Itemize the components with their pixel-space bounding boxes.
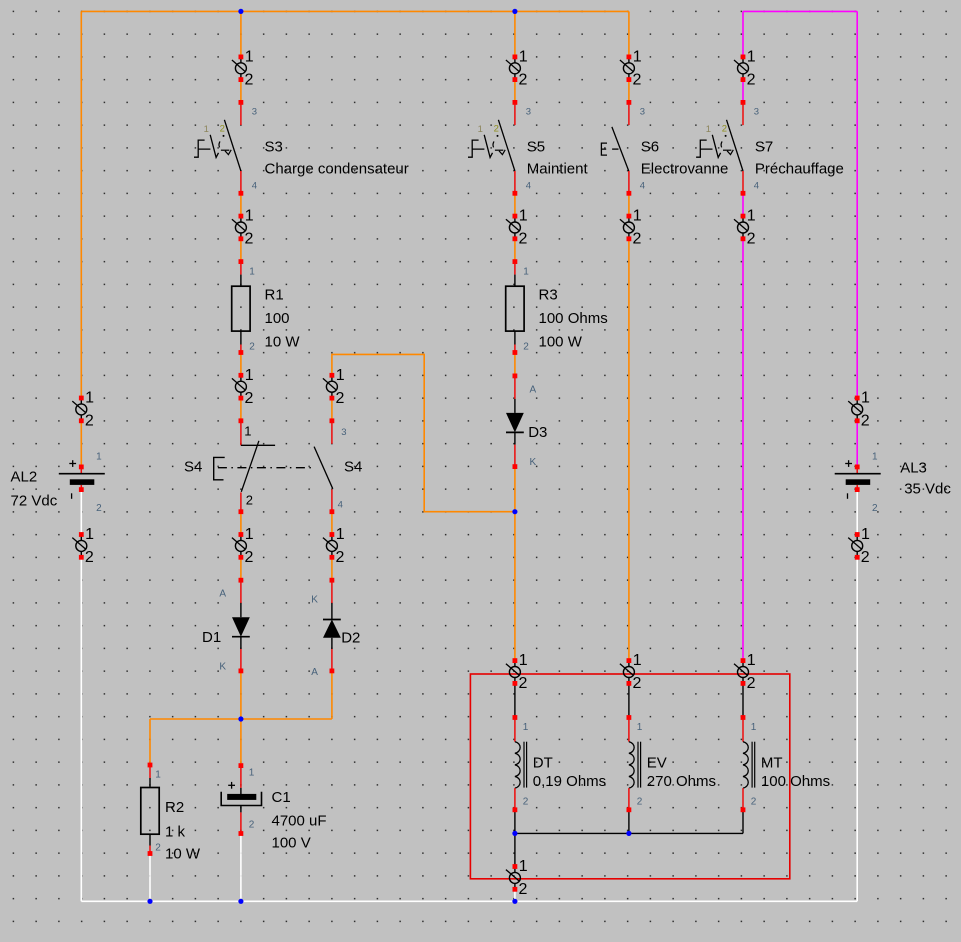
node node EV common [626,831,631,836]
svg-text:S5: S5 [527,138,545,155]
svg-text:A: A [530,384,537,395]
wire white bottom bus [81,900,857,902]
svg-text:1: 1 [96,452,102,463]
svg-text:3: 3 [341,427,346,438]
svg-text:2: 2 [523,796,529,807]
svg-text:2: 2 [245,549,254,566]
svg-text:2: 2 [722,123,727,134]
svg-text:K: K [219,661,226,672]
wire S7 pin4 to TP [742,195,744,217]
test point above D1 [232,526,254,566]
svg-text:4: 4 [252,180,257,191]
svg-text:1: 1 [245,49,254,66]
wire C1 bottom [240,834,242,902]
svg-text:100 Ohms: 100 Ohms [539,310,608,327]
node node R2/bus [147,899,152,904]
svg-text:72 Vdc: 72 Vdc [11,493,58,510]
svg-text:100 W: 100 W [539,334,583,351]
test point EV [620,652,642,692]
svg-text:S7: S7 [755,138,773,155]
svg-text:4700 uF: 4700 uF [272,812,327,829]
svg-text:270 Ohms: 270 Ohms [647,773,716,790]
node node S5/top bus [512,9,517,14]
wire AL3 column top [856,11,858,398]
svg-text:2: 2 [246,493,253,508]
wire R2 bottom [149,854,151,902]
svg-text:R3: R3 [539,287,558,304]
svg-text:2: 2 [220,123,225,134]
battery AL3 (35 Vdc) [835,452,952,515]
svg-text:10 W: 10 W [165,846,201,863]
svg-text:R2: R2 [165,799,184,816]
svg-text:AL3: AL3 [900,459,927,476]
wire S6 column drop [628,11,630,57]
switch S5 (Maintient) [468,100,588,196]
wire S4 branch to node F [332,354,515,511]
svg-text:2: 2 [155,843,161,854]
wire S4 pin2 to TP [240,512,242,535]
svg-text:1: 1 [747,49,756,66]
test point AL3 minus [848,526,870,566]
svg-text:K: K [311,595,318,606]
svg-text:D2: D2 [341,629,360,646]
svg-text:1: 1 [519,652,528,669]
svg-text:2: 2 [249,342,255,353]
svg-text:2: 2 [637,796,643,807]
wire horizontal R2/C1/D2 [150,718,332,720]
wire S5 pin4 to TP [514,195,516,217]
wire node to C1 [240,719,242,765]
test point common bottom [506,858,528,898]
wire S6 TP to pin3 [628,80,630,101]
diode D1 [219,578,249,674]
svg-text:2: 2 [747,231,756,248]
svg-text:1: 1 [155,770,161,781]
enclosure box (glow plug unit) [470,674,789,879]
wire D2 cathode riser [331,671,333,719]
svg-text:0,19 Ohms: 0,19 Ohms [533,773,606,790]
svg-text:2: 2 [872,503,878,514]
svg-text:1: 1 [519,858,528,875]
capacitor C1 (4700 uF 100 V) [221,763,326,852]
svg-text:S4: S4 [184,459,202,476]
test point above D2 [323,526,345,566]
svg-text:2: 2 [245,231,254,248]
svg-text:MT: MT [761,755,783,772]
switch S4 left pole (NC) [184,418,275,514]
wire TP to S4 pin1 [240,398,242,421]
svg-text:C1: C1 [272,789,291,806]
svg-text:1: 1 [244,424,251,439]
wire R1 to TP [240,353,242,376]
inductor DT (0,19 Ohms) [513,715,607,812]
svg-text:1: 1 [249,768,255,779]
svg-text:100: 100 [265,310,290,327]
wire S6 pin4 to TP [628,195,630,217]
wire DT bottom TP to bus [514,889,516,901]
wire node to DT test point [514,512,516,661]
test point AL2 minus [72,526,94,566]
svg-text:2: 2 [494,123,499,134]
test point AL2 plus [72,390,94,430]
test point S5 bottom [506,208,528,248]
svg-text:1: 1 [336,526,345,543]
svg-text:4: 4 [754,180,759,191]
wire S4 right pin4 to TP [331,512,333,535]
node node C1/bus [238,899,243,904]
node node DT common [512,831,517,836]
svg-text:2: 2 [96,503,102,514]
svg-text:D1: D1 [202,629,221,646]
wire S7 TP to pin3 [742,80,744,101]
svg-text:2: 2 [85,413,94,430]
wire drop to R2 [149,719,151,765]
svg-text:35 Vdc: 35 Vdc [904,481,951,498]
switch S4 right pole (NO) [314,418,362,514]
test point S5 top [506,49,528,89]
wire TP to R3 [514,239,516,262]
svg-text:1: 1 [633,208,642,225]
svg-text:1: 1 [633,49,642,66]
switch S3 (Charge condensateur) [194,100,409,196]
svg-text:4: 4 [338,499,343,510]
svg-text:1: 1 [633,652,642,669]
diode D3 [506,374,547,470]
resistor R3 [506,259,608,355]
svg-text:2: 2 [633,675,642,692]
wire DT TP to coil [514,683,516,717]
svg-text:100 V: 100 V [272,835,311,852]
svg-text:2: 2 [519,881,528,898]
svg-text:Préchauffage: Préchauffage [755,161,844,178]
svg-text:2: 2 [245,72,254,89]
svg-text:2: 2 [747,675,756,692]
svg-text:1: 1 [861,390,870,407]
test point below R1 [232,367,254,407]
svg-text:1: 1 [336,367,345,384]
svg-text:1 k: 1 k [165,824,186,841]
svg-text:S4: S4 [344,459,362,476]
wire TP to S4 right pin3 [331,398,333,421]
svg-text:2: 2 [519,675,528,692]
svg-text:A: A [311,667,318,678]
svg-text:1: 1 [747,208,756,225]
svg-text:D3: D3 [528,424,547,441]
svg-text:1: 1 [85,390,94,407]
test point S3 bottom [232,208,254,248]
svg-text:2: 2 [751,796,757,807]
node node TP/bus [512,899,517,904]
wire AL3 negative drop [856,557,858,901]
svg-text:2: 2 [85,549,94,566]
svg-text:2: 2 [633,231,642,248]
wire S7 column drop [742,11,744,57]
wire R3 to D3 [514,353,516,376]
svg-text:10 W: 10 W [265,334,301,351]
svg-text:1: 1 [523,722,529,733]
wire D1 cathode to node [240,671,242,719]
svg-text:1: 1 [249,266,255,277]
svg-text:2: 2 [747,72,756,89]
wire coil commons [514,811,516,834]
switch S4 actuator bracket and link [214,457,314,479]
wire TP to D2 [331,557,333,580]
svg-text:1: 1 [85,526,94,543]
svg-text:3: 3 [526,106,531,117]
wire top orange bus [81,10,629,12]
wire AL2 negative drop [80,557,82,901]
test point S7 bottom [734,208,756,248]
svg-text:1: 1 [637,722,643,733]
svg-text:1: 1 [861,526,870,543]
svg-text:2: 2 [249,819,255,830]
battery AL2 (72 Vdc) [11,452,105,515]
switch S7 (Préchauffage) [696,100,844,196]
wire S3 column drop [240,11,242,57]
svg-text:K: K [530,457,537,468]
svg-text:2: 2 [861,549,870,566]
svg-text:3: 3 [754,106,759,117]
svg-text:EV: EV [647,755,667,772]
svg-text:1: 1 [747,652,756,669]
svg-text:4: 4 [526,180,531,191]
svg-text:1: 1 [706,124,711,135]
wire TP to D1 anode [240,557,242,580]
wire S3 TP to pin3 [240,80,242,101]
svg-text:R1: R1 [265,287,284,304]
svg-text:S3: S3 [265,138,283,155]
svg-text:100 Ohms: 100 Ohms [761,773,830,790]
wire AL3 battery to test point [856,491,858,535]
svg-text:2: 2 [633,72,642,89]
svg-text:DT: DT [533,755,553,772]
svg-text:1: 1 [204,124,209,135]
svg-text:2: 2 [245,390,254,407]
svg-text:1: 1 [245,367,254,384]
svg-text:2: 2 [336,390,345,407]
svg-text:1: 1 [245,208,254,225]
svg-text:1: 1 [519,208,528,225]
test point AL3 plus [848,390,870,430]
svg-text:Charge condensateur: Charge condensateur [265,161,409,178]
svg-text:1: 1 [523,266,529,277]
svg-text:2: 2 [519,231,528,248]
node node D3/S4 branch [512,509,517,514]
test point S4 branch [323,367,345,407]
switch S6 (Electrovanne) [601,100,728,196]
test point MT [734,652,756,692]
svg-text:2: 2 [336,549,345,566]
svg-text:2: 2 [861,413,870,430]
svg-text:1: 1 [245,526,254,543]
wire AL3 TP to battery [856,421,858,465]
wire S5 TP to pin3 [514,80,516,101]
wire TP to R1 [240,239,242,262]
svg-text:A: A [219,589,226,600]
wire EV TP to coil [628,683,630,717]
wire D3 cathode to node [514,467,516,512]
resistor R2 [141,763,201,863]
svg-text:4: 4 [640,180,645,191]
test point S7 top [734,49,756,89]
test point S6 bottom [620,208,642,248]
wire AL2 TP to battery [80,421,82,465]
node node S3/top bus [238,9,243,14]
svg-text:Maintient: Maintient [527,161,589,178]
wire common to bottom TP [514,833,516,866]
svg-text:Electrovanne: Electrovanne [641,161,729,178]
wire MT TP to coil [742,683,744,717]
node node D1/C1/R2 [238,716,243,721]
svg-text:AL2: AL2 [11,469,38,486]
svg-text:1: 1 [519,49,528,66]
test point S3 top [232,49,254,89]
wire S6 to EV test point [628,239,630,661]
svg-text:3: 3 [252,106,257,117]
svg-text:S6: S6 [641,138,659,155]
wire AL2 battery to test point [80,491,82,535]
wire S3 pin4 to TP [240,195,242,217]
test point DT [506,652,528,692]
wire magenta top bus [743,10,857,12]
inductor EV (270 Ohms) [627,715,717,812]
svg-text:1: 1 [751,722,757,733]
svg-text:1: 1 [872,452,878,463]
wire S7 to MT test point [742,239,744,661]
svg-text:1: 1 [478,124,483,135]
inductor MT (100 Ohms) [741,715,831,812]
svg-text:3: 3 [640,106,645,117]
wire S5 column drop [514,11,516,57]
wire AL2 column top [80,11,82,398]
svg-text:2: 2 [519,72,528,89]
svg-text:2: 2 [523,342,529,353]
diode D2 [311,578,360,678]
resistor R1 [232,259,301,355]
test point S6 top [620,49,642,89]
